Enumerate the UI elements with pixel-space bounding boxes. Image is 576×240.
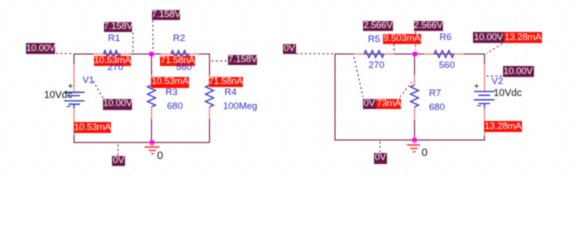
- ground name 0 (left): [157, 152, 163, 161]
- node junction dot right-top: [413, 52, 417, 56]
- ref R4: [225, 88, 237, 97]
- current label 71.58nA on R4: [209, 77, 243, 88]
- value 680 of R7: [429, 103, 445, 112]
- V1 pin leads: [73, 64, 75, 135]
- V1 battery plates: [64, 92, 85, 108]
- value 10Vdc of V2: [494, 89, 522, 98]
- node junction dot left-bottom: [150, 140, 154, 144]
- probe dashes: 10.00V no4 to V2 lead: [487, 75, 503, 77]
- V2 plus mark: [475, 84, 479, 88]
- probe dashes: 0V no2 to left corner: [296, 53, 333, 55]
- bias label 7.158V no2: [152, 10, 181, 20]
- current label 71.58nA on R2: [160, 56, 195, 66]
- ground 0 (right circuit): [414, 141, 416, 145]
- current label 10.53mA on R1: [94, 56, 131, 66]
- V2 battery plates: [474, 92, 495, 109]
- wire: R4 branch vertical segments: [209, 54, 211, 143]
- current label 10.53mA on V1: [74, 122, 111, 133]
- ref R2: [173, 34, 185, 43]
- bias label 7.158V no3: [228, 55, 257, 66]
- V1 plus mark: [69, 84, 73, 88]
- value 680 of R3: [167, 102, 183, 111]
- resistor R4 zigzag (vertical): [206, 75, 214, 119]
- bias label 0V no4: [374, 153, 387, 164]
- V2 minus mark: [477, 105, 481, 107]
- bias label 10.00V no3: [473, 32, 504, 43]
- probe dashes: 0V no3 to R5 left pin: [354, 57, 363, 97]
- wire: left circuit bottom wire: [74, 142, 210, 144]
- value 10Vdc of V1: [44, 91, 72, 100]
- bias label 10.00V (left of V1 top): [26, 43, 55, 54]
- probe dashes: 0V no1 up to bottom wire: [117, 145, 119, 156]
- wire: R3 branch vertical segments: [151, 54, 153, 143]
- bias label 7.158V no1: [104, 22, 133, 32]
- node junction dot left-top: [149, 52, 153, 56]
- bias label 0V no1: [112, 156, 125, 166]
- wire: right circuit top wire: [335, 53, 485, 55]
- ref V2: [492, 77, 504, 86]
- value 270 of R1: [108, 63, 124, 72]
- bias label 10.00V no2: [103, 99, 132, 110]
- current label 13.28mA no2: [484, 121, 522, 132]
- ref R5: [368, 35, 380, 44]
- ref R6: [440, 33, 452, 42]
- resistor R1 zigzag: [94, 51, 131, 58]
- wire: R7 branch vertical segments: [414, 54, 416, 140]
- resistor R2 zigzag: [161, 51, 199, 58]
- ground 0 (left circuit): [151, 143, 153, 147]
- ground name 0 (right): [422, 149, 428, 158]
- ref R1: [108, 34, 120, 43]
- wire: left circuit top wire: [74, 53, 210, 55]
- probe dashes: 2.566V no2 down to junction: [415, 32, 417, 51]
- value 270 of R5: [369, 61, 385, 70]
- V2 pin leads: [484, 64, 486, 136]
- ref V1: [83, 76, 95, 85]
- resistor R5 zigzag: [354, 51, 394, 58]
- bias label 0V no3 (overlapping): [363, 99, 376, 109]
- node junction dot right-bottom: [412, 138, 416, 142]
- probe dashes: 10.00V no2 to V1 plus: [92, 79, 103, 98]
- resistor R7 zigzag (vertical): [411, 75, 419, 120]
- ref R3: [166, 88, 178, 97]
- wire: V2 branch vertical segments: [484, 54, 486, 141]
- V1 minus mark: [67, 106, 71, 108]
- bias label 2.566V no2: [414, 21, 444, 31]
- current label 9.503mA on R5: [383, 34, 421, 44]
- probe dashes: 3.773mA to R7 top pin: [400, 82, 412, 97]
- bias label 10.00V no4: [503, 66, 534, 77]
- probe dashes: 7.158V no1 down: [132, 33, 134, 54]
- resistor R3 zigzag (vertical): [148, 75, 156, 119]
- current label 3.773mA on R7 (partially covered): [364, 99, 401, 109]
- current label 13.28mA no1: [504, 32, 542, 43]
- wire: left circuit left vertical (V1 branch): [73, 54, 75, 144]
- probe dashes: 0V no4 up to bottom wire: [379, 142, 381, 153]
- probe dashes: 7.158V no2 down to junction: [152, 21, 154, 51]
- value 560 of R6: [439, 61, 455, 70]
- value 560 of R2: [176, 63, 192, 72]
- value 100Meg of R4: [223, 102, 257, 111]
- probe dashes: 7.158V no3 to R4 corner: [212, 60, 228, 62]
- current label 10.53mA on R3: [151, 77, 189, 88]
- bias label 0V no2: [283, 44, 296, 54]
- probe dashes: 9.503mA down to R5 pin: [393, 44, 395, 53]
- probe dashes: 10.00V left to corner: [56, 53, 73, 55]
- resistor R6 zigzag: [424, 51, 464, 58]
- probe dashes: 10.00V no3 to right corner: [487, 42, 507, 54]
- ref R7: [429, 89, 441, 98]
- bias label 2.566V no1: [363, 21, 393, 31]
- wire: right circuit bottom wire: [335, 139, 485, 141]
- wire: right circuit left vertical: [334, 54, 336, 141]
